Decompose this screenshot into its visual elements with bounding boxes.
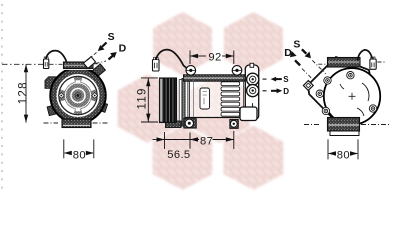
diamond body bbox=[308, 57, 374, 127]
front coil housing bbox=[179, 80, 182, 126]
bottom centerline bbox=[304, 124, 319, 126]
svg-text:80: 80 bbox=[73, 150, 86, 162]
bolts on face bbox=[316, 72, 377, 115]
rear ports (peanut) bbox=[247, 73, 259, 96]
watermark hexagon mid-left bbox=[118, 74, 178, 143]
wire bbox=[156, 50, 186, 68]
label plate bbox=[200, 88, 210, 109]
svg-text:92: 92 bbox=[208, 51, 221, 63]
main circle bbox=[324, 68, 380, 124]
plug right bbox=[370, 59, 376, 69]
left view D label and arrow bbox=[96, 42, 127, 63]
casting arcs bbox=[362, 83, 369, 101]
right view D label/arrow bbox=[284, 47, 312, 79]
svg-text:56.5: 56.5 bbox=[167, 149, 190, 161]
pulley outer bbox=[50, 68, 105, 123]
rib fins bbox=[221, 82, 240, 116]
white wings bbox=[61, 78, 96, 114]
D row bbox=[263, 90, 267, 92]
wire bbox=[46, 51, 67, 62]
side bolts bbox=[58, 93, 64, 99]
bottom foot bbox=[62, 119, 91, 128]
svg-text:119: 119 bbox=[137, 87, 149, 109]
bottom foot bbox=[328, 118, 360, 132]
plug bbox=[44, 59, 49, 69]
dash right of plug bbox=[378, 61, 386, 63]
dimension 56.5 and 87 bbox=[153, 131, 234, 149]
dimension 80 (left view) bbox=[64, 139, 94, 158]
svg-text:S: S bbox=[283, 75, 289, 84]
pulley grooves bbox=[160, 78, 177, 123]
top bolt right bbox=[232, 66, 242, 76]
white ring bbox=[57, 75, 98, 116]
hub bbox=[71, 89, 85, 103]
bottom left foot with bolt bbox=[184, 119, 197, 129]
body tab bottom-left bbox=[47, 105, 57, 116]
watermark hexagon bottom-left bbox=[153, 126, 213, 191]
watermark hexagon bottom-right bbox=[224, 126, 284, 191]
watermark hexagon top-right bbox=[224, 12, 283, 76]
svg-text:D: D bbox=[119, 42, 127, 54]
port fitting (white, rotated) bbox=[83, 57, 95, 69]
coil housing lower block bbox=[166, 121, 182, 128]
top mounting bar bbox=[64, 62, 94, 69]
armature disc bbox=[59, 76, 97, 114]
watermark hexagon top-left bbox=[118, 12, 284, 190]
wire to plug bbox=[358, 50, 373, 61]
bottom bolt right with pad bbox=[230, 119, 239, 128]
right view S label/arrow bbox=[293, 39, 325, 74]
top mounting bar bbox=[184, 75, 246, 81]
dimension 119 bbox=[141, 78, 158, 122]
dimension 80 (right view) bbox=[328, 139, 358, 159]
left corner port bbox=[303, 81, 313, 91]
dimension 92 bbox=[190, 51, 234, 65]
svg-text:S: S bbox=[108, 31, 115, 43]
svg-text:87: 87 bbox=[200, 136, 213, 148]
rear foot bracket bbox=[240, 107, 257, 121]
left page border dots bbox=[1, 4, 3, 191]
center cross bbox=[349, 95, 356, 97]
dimension 128 bbox=[25, 64, 27, 122]
top bolt left bbox=[186, 66, 196, 76]
svg-text:80: 80 bbox=[337, 150, 350, 162]
top bar bbox=[328, 58, 361, 68]
svg-text:S: S bbox=[293, 39, 300, 51]
mounting ear top-right (hatched) bbox=[90, 64, 106, 79]
S row bbox=[263, 78, 267, 80]
electrical plug bbox=[153, 57, 160, 71]
middle view S/D labels bbox=[263, 75, 290, 96]
left view S label and arrow bbox=[87, 31, 115, 61]
page background bbox=[0, 0, 400, 191]
body tab left-upper bbox=[45, 77, 57, 89]
bottom centerline bbox=[44, 122, 59, 124]
centerline through plug bbox=[2, 63, 43, 65]
svg-text:D: D bbox=[283, 87, 289, 96]
svg-text:128: 128 bbox=[17, 81, 29, 104]
body tab bottom-right bbox=[98, 102, 107, 112]
compressor body (transparent fill) bbox=[185, 76, 246, 118]
rear head bbox=[245, 65, 258, 120]
watermark hexagon mid-right bbox=[190, 74, 250, 143]
